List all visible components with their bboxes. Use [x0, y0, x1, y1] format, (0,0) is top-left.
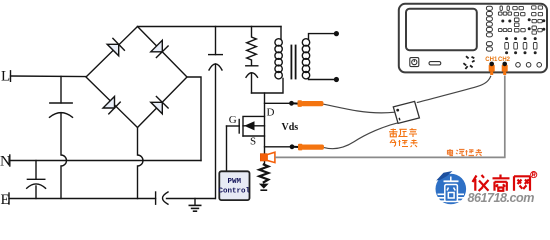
- svg-text:Vds: Vds: [282, 122, 299, 133]
- svg-text:S: S: [250, 136, 256, 148]
- oscilloscope screen: [406, 9, 477, 50]
- node secondary bottom: [334, 77, 339, 82]
- cable diff box to CH1: [417, 76, 491, 103]
- capacitor C1 (L branch): [50, 76, 73, 117]
- wire C1 down with hop over N: [61, 114, 67, 199]
- wire L to bridge left corner: [11, 75, 87, 78]
- resistor R2 (sense): [259, 165, 268, 183]
- transistor Q1 (MOSFET): [227, 93, 265, 165]
- svg-text:N: N: [0, 153, 11, 169]
- resistor R1 (snubber): [247, 27, 257, 66]
- capacitor C2 (N-E): [27, 161, 46, 199]
- current probe clamp: [260, 152, 275, 162]
- diode D4 (lower-right arm): [151, 97, 168, 114]
- logo emblem: [436, 171, 467, 204]
- capacitor C4 (bulk cap): [209, 27, 223, 199]
- transformer core: [291, 46, 295, 79]
- oscilloscope body: [399, 4, 547, 73]
- wire drain probe tap: [265, 102, 290, 104]
- svg-text:D: D: [267, 106, 275, 118]
- svg-text:PWM: PWM: [228, 178, 242, 186]
- usb slot: [429, 62, 441, 65]
- BNC CH2: [502, 62, 508, 75]
- text 高压差 (orange): [389, 129, 417, 138]
- panel dots: [501, 18, 545, 54]
- capacitor C3 (Y-cap in bottom rail): [156, 192, 168, 204]
- power button: [410, 58, 419, 67]
- softkey column: [486, 6, 492, 51]
- cable probe P2 to diff box: [324, 123, 398, 149]
- PWM controller U1: [219, 171, 251, 200]
- svg-text:Control: Control: [219, 188, 251, 196]
- wire E / bottom rail left: [9, 198, 156, 200]
- probe P2 (source, orange): [292, 144, 324, 151]
- text 分探头 (orange): [390, 140, 418, 148]
- probe P1 (drain, orange): [292, 100, 324, 107]
- logo (R): [531, 172, 537, 178]
- text 电流探头 (orange): [448, 149, 483, 156]
- wire gate to PWM: [226, 126, 228, 171]
- capacitor C5 (snubber): [246, 66, 258, 93]
- diode D1 (upper-left arm): [107, 38, 124, 55]
- panel buttons: [498, 6, 542, 49]
- bottom knobs: [516, 63, 542, 68]
- ground (source): [259, 184, 269, 191]
- wire bottom rail right: [167, 198, 216, 200]
- cable probe P1 to diff box: [324, 104, 395, 113]
- terminal N: [9, 155, 11, 166]
- cable current probe to CH2 (gray): [275, 76, 505, 158]
- svg-text:E: E: [1, 192, 10, 208]
- wire source probe tap: [265, 146, 291, 148]
- ground (bottom rail): [189, 199, 200, 212]
- differential probe box: [393, 101, 419, 123]
- node drain probe point: [289, 101, 294, 106]
- BNC CH1: [489, 62, 495, 75]
- wire bridge right corner to N rail: [187, 77, 201, 161]
- transformer T1 secondary: [302, 34, 334, 80]
- transformer T1 primary: [275, 27, 282, 79]
- terminal L: [10, 71, 12, 82]
- wire snubber bottom to primary bottom: [252, 79, 284, 94]
- terminal E: [8, 193, 10, 204]
- probe comp icon: [463, 56, 474, 69]
- svg-text:861718.com: 861718.com: [468, 191, 535, 205]
- node source probe point: [290, 144, 295, 149]
- wire N rail: [10, 160, 201, 162]
- diode D2 (upper-right arm): [151, 40, 168, 57]
- node secondary top: [334, 31, 339, 36]
- diode D3 (lower-left arm): [103, 97, 120, 114]
- svg-text:L: L: [1, 69, 10, 85]
- wire top rail: [138, 26, 282, 28]
- logo text 仪商网 (red): [473, 175, 531, 192]
- bridge rectifier outline: [86, 27, 187, 128]
- wire bridge bottom with hop over N: [138, 128, 144, 199]
- svg-text:G: G: [229, 114, 237, 126]
